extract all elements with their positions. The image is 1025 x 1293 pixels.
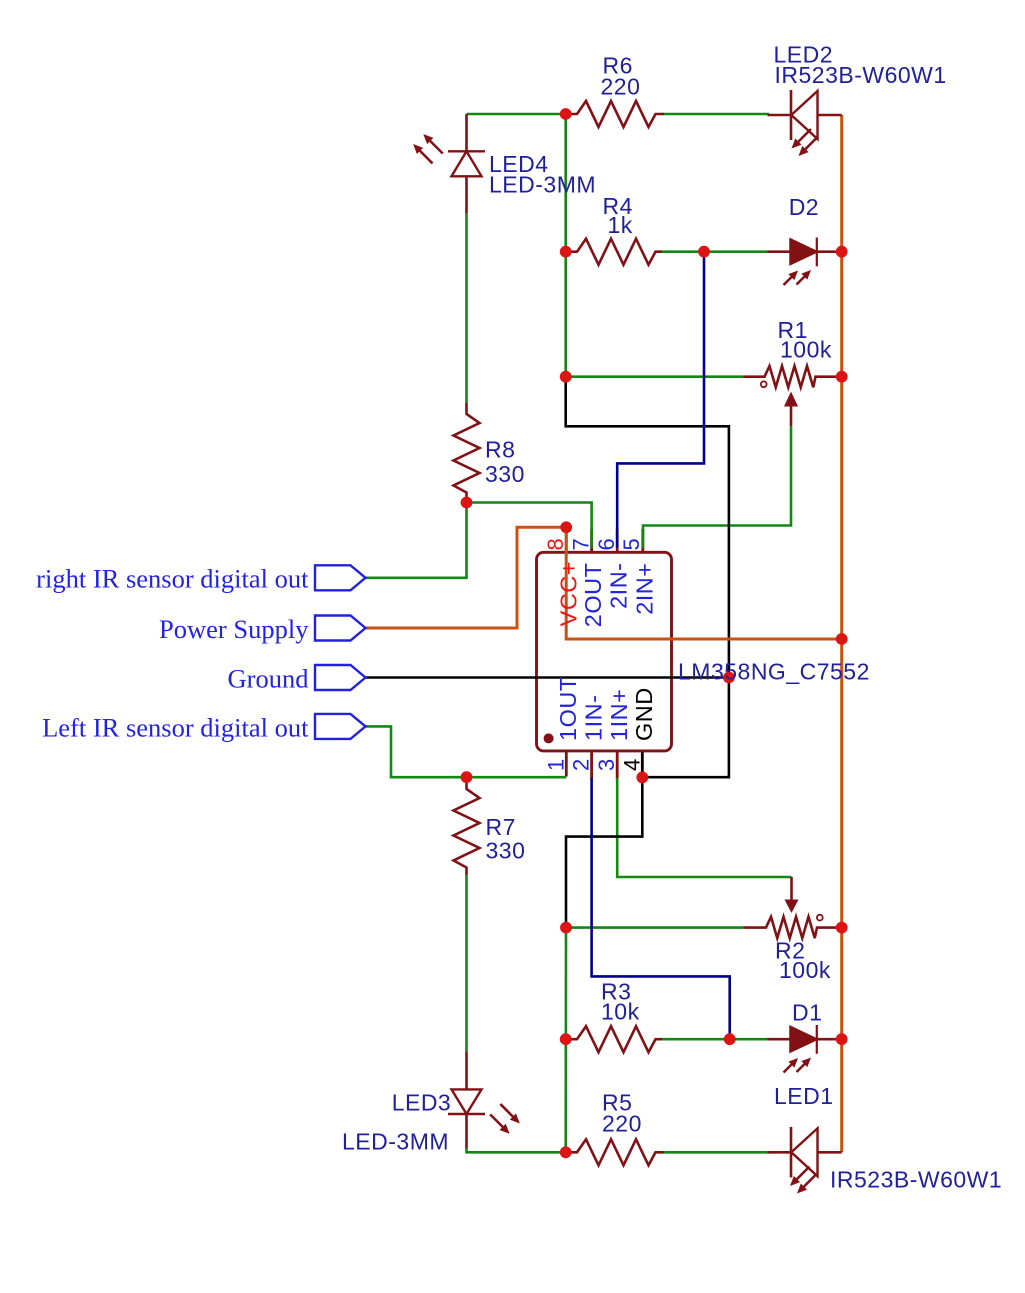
photodiode D2: [768, 238, 842, 288]
wire left IR sensor to pin1: [366, 726, 567, 777]
svg-text:LED-3MM: LED-3MM: [489, 172, 596, 198]
svg-text:10k: 10k: [601, 999, 640, 1025]
svg-text:100k: 100k: [779, 957, 831, 983]
svg-text:1: 1: [543, 759, 568, 771]
connector Power Supply: [315, 616, 366, 641]
svg-text:3: 3: [594, 759, 619, 771]
svg-text:LED3: LED3: [392, 1090, 452, 1116]
resistor R8: [454, 403, 480, 503]
pin 5 stub: [641, 529, 644, 553]
potentiometer R1: [744, 366, 842, 387]
pin 4 stub: [641, 751, 644, 777]
wire LED4 anode down: [465, 214, 468, 403]
wire R5 to LED1: [663, 1151, 769, 1154]
resistor R4: [566, 239, 662, 265]
junction node R1 left: [560, 371, 572, 383]
LED4 LED-3MM symbol: [410, 114, 485, 214]
wire R3 to D1: [661, 1038, 768, 1041]
svg-text:2IN+: 2IN+: [631, 563, 657, 615]
wire vertical x566 R2-R3-R5: [564, 928, 567, 1153]
junction node pin4: [636, 772, 648, 784]
R2 terminal circle: [817, 915, 823, 921]
svg-text:LM358NG_C7552: LM358NG_C7552: [678, 659, 870, 685]
svg-text:8: 8: [543, 538, 568, 550]
svg-text:right IR sensor digital out: right IR sensor digital out: [36, 564, 309, 594]
LED1 IR emitter symbol: [768, 1127, 842, 1197]
R1 terminal circle: [761, 381, 767, 387]
svg-text:D1: D1: [792, 1000, 822, 1026]
svg-text:220: 220: [601, 74, 641, 100]
wire blue pin2 to R3-D1 node: [592, 778, 730, 1039]
wire black node to ground net: [566, 377, 729, 778]
svg-text:VCC+: VCC+: [556, 561, 582, 626]
svg-text:7: 7: [568, 538, 593, 550]
pin 1 stub: [565, 751, 568, 777]
svg-text:D2: D2: [789, 194, 819, 220]
wire R4 to D2: [661, 250, 768, 253]
svg-text:1OUT: 1OUT: [555, 676, 581, 741]
svg-text:LED1: LED1: [774, 1083, 834, 1109]
resistor R6: [566, 101, 664, 127]
svg-text:Ground: Ground: [228, 664, 309, 694]
junction node D2 bus: [836, 246, 848, 258]
R1 wiper arrow: [790, 405, 793, 427]
LED2 IR emitter symbol: [768, 90, 842, 159]
op-amp U1 LM358NG_C7552 body: [537, 552, 672, 751]
wire LED3 cathode corner: [467, 1148, 566, 1152]
junction node R8 bottom: [461, 497, 473, 509]
wire ground connector: [366, 676, 729, 679]
svg-text:330: 330: [486, 838, 526, 864]
pin 3 stub: [616, 751, 619, 779]
junction node R6 left: [560, 108, 572, 120]
svg-text:6: 6: [594, 538, 619, 550]
svg-text:1IN+: 1IN+: [606, 689, 632, 741]
junction node ground tap: [723, 672, 735, 684]
wire R2 left: [566, 926, 744, 929]
wire top LED4 to R6: [467, 113, 566, 116]
svg-text:2IN-: 2IN-: [606, 563, 632, 609]
wire R6 to LED2: [663, 113, 769, 116]
junction node R5 left: [560, 1146, 572, 1158]
pin 2 stub: [590, 751, 593, 779]
wire blue D2 to pin6: [617, 252, 704, 548]
wire R7 to LED3: [465, 875, 468, 1052]
svg-text:4: 4: [619, 759, 644, 771]
svg-text:100k: 100k: [780, 337, 832, 363]
wire to R1 left: [566, 375, 744, 378]
resistor R3: [566, 1026, 662, 1052]
connector Left IR sensor digital out: [315, 714, 366, 739]
svg-text:330: 330: [485, 461, 525, 487]
wire VCC bus vertical: [840, 115, 843, 1152]
wire vertical x566 R6-R4-R1: [564, 114, 567, 377]
junction node R7 top: [461, 771, 473, 783]
wire R8 junction to pin7: [467, 503, 592, 549]
connector right IR sensor digital out: [315, 565, 366, 590]
svg-text:LED-3MM: LED-3MM: [342, 1129, 449, 1155]
potentiometer R2: [744, 917, 842, 938]
junction node R3 blue tap: [724, 1033, 736, 1045]
wire right IR sensor to R8: [366, 503, 467, 578]
LED3 LED-3MM symbol: [448, 1052, 523, 1148]
connector Ground: [315, 665, 366, 690]
svg-text:1k: 1k: [608, 212, 633, 238]
junction node D1 bus: [836, 1033, 848, 1045]
junction node R2 left: [560, 922, 572, 934]
R2 wiper arrow: [790, 877, 793, 901]
junction node R2 bus: [836, 922, 848, 934]
junction node D2 blue tap: [698, 246, 710, 258]
wire pin4 to gnd rail: [566, 752, 642, 928]
svg-text:Power Supply: Power Supply: [159, 614, 309, 644]
op-amp pin1 marker dot: [544, 733, 554, 743]
resistor R7: [454, 777, 480, 875]
svg-text:GND: GND: [631, 687, 657, 741]
svg-text:R8: R8: [485, 437, 515, 463]
pin 8 stub: [565, 529, 568, 553]
photodiode D1: [768, 1025, 842, 1075]
svg-text:2: 2: [569, 759, 594, 771]
svg-text:5: 5: [619, 538, 644, 550]
svg-text:IR523B-W60W1: IR523B-W60W1: [830, 1167, 1002, 1193]
junction node VCC pin8: [560, 521, 572, 533]
junction node R1 bus: [836, 371, 848, 383]
resistor R5: [566, 1139, 664, 1165]
svg-text:R7: R7: [486, 814, 516, 840]
svg-text:220: 220: [602, 1111, 642, 1137]
svg-text:1IN-: 1IN-: [580, 695, 606, 741]
svg-text:2OUT: 2OUT: [580, 563, 606, 628]
svg-text:IR523B-W60W1: IR523B-W60W1: [775, 62, 947, 88]
wire pin3 to R2 wiper: [617, 778, 791, 877]
pin 6 stub: [616, 529, 619, 553]
pin 7 stub: [590, 529, 593, 553]
wire R1 wiper to pin5: [643, 426, 791, 548]
wire power supply orange: [366, 527, 842, 639]
junction node R4 left: [560, 246, 572, 258]
svg-text:Left IR sensor digital out: Left IR sensor digital out: [42, 713, 309, 743]
junction node VCC bus: [836, 633, 848, 645]
junction node R3 left: [560, 1033, 572, 1045]
